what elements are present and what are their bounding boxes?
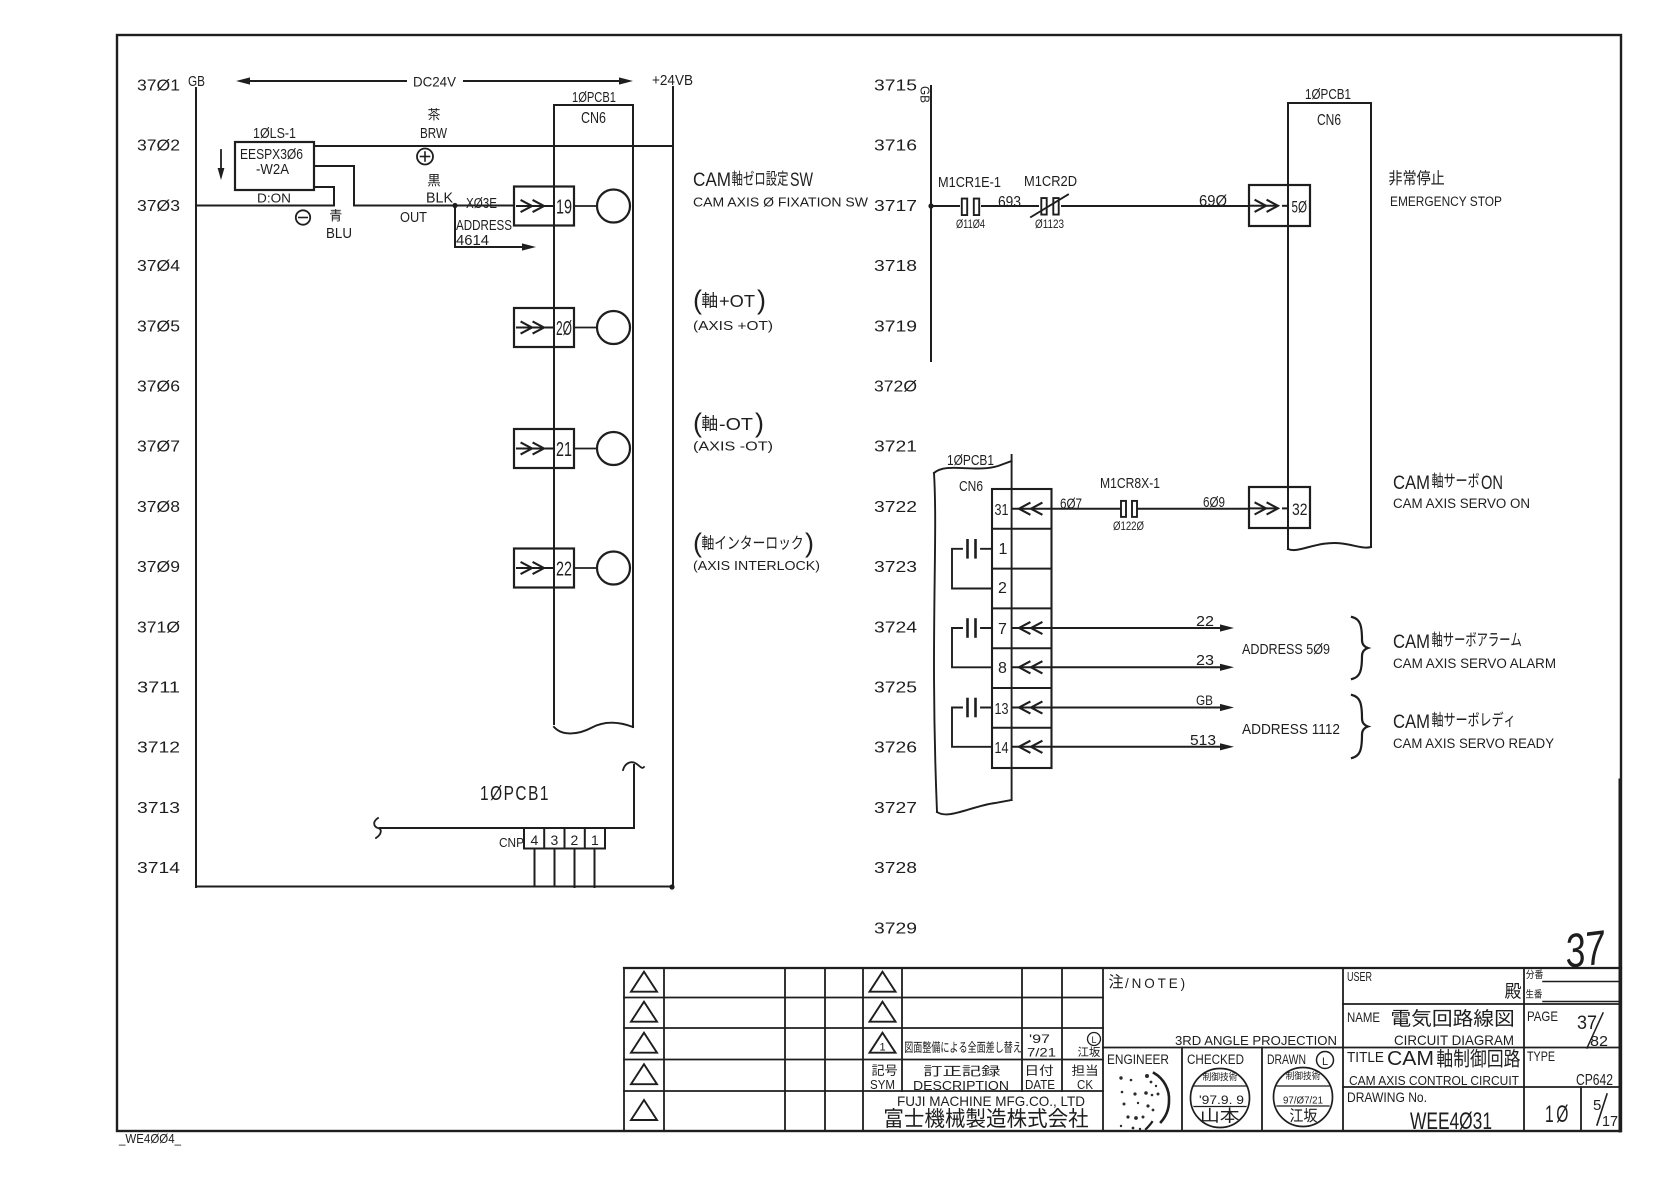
indicator lamp pin 22 [574, 552, 630, 585]
svg-text:DRAWN: DRAWN [1267, 1052, 1306, 1067]
svg-text:3725: 3725 [874, 680, 917, 697]
svg-text:PAGE: PAGE [1527, 1008, 1558, 1024]
svg-text:37: 37 [1577, 1013, 1597, 1034]
name field circuit diagram [1347, 1009, 1514, 1048]
svg-text:1Ø: 1Ø [1545, 1101, 1571, 1128]
svg-text:693: 693 [998, 194, 1021, 211]
svg-text:37Ø9: 37Ø9 [137, 559, 180, 576]
svg-text:22: 22 [1196, 614, 1214, 630]
svg-text:Ø122Ø: Ø122Ø [1113, 521, 1144, 533]
indicator lamp pin 20 [574, 311, 630, 344]
wire 23 to address [1052, 653, 1235, 671]
svg-text:1ØPCB1: 1ØPCB1 [480, 783, 550, 805]
svg-text:6Ø9: 6Ø9 [1203, 494, 1225, 511]
svg-text:1ØPCB1: 1ØPCB1 [1305, 86, 1351, 103]
sym description date ck header [870, 1064, 1097, 1093]
input pin 19 [514, 187, 574, 226]
svg-text:3714: 3714 [137, 860, 180, 877]
engineer stamp [1119, 1073, 1169, 1130]
wire DC24V bus [236, 74, 633, 90]
svg-text:3715: 3715 [874, 78, 917, 95]
svg-text:37Ø5: 37Ø5 [137, 318, 180, 335]
input pin 20 [514, 308, 574, 347]
internal contact pins 7-8 [952, 620, 992, 668]
svg-text:): ) [755, 408, 764, 438]
svg-text:37Ø8: 37Ø8 [137, 499, 180, 516]
connector CNP pins 4-1 [499, 828, 605, 850]
svg-text:/NOTE): /NOTE) [1125, 975, 1188, 991]
svg-text:3711: 3711 [137, 680, 180, 697]
title field cam axis control circuit [1347, 1048, 1520, 1088]
pin 7 [998, 621, 1052, 638]
svg-text:'97: '97 [1029, 1032, 1050, 1046]
svg-text:1: 1 [591, 832, 599, 848]
svg-text:(: ( [693, 528, 702, 558]
wire 513 to address [1052, 733, 1235, 750]
svg-text:CNP: CNP [499, 835, 524, 850]
svg-text:CN6: CN6 [581, 110, 606, 127]
svg-text:14: 14 [995, 740, 1009, 757]
svg-text:CAM AXIS SERVO ON: CAM AXIS SERVO ON [1393, 496, 1530, 511]
wire GB bus right [928, 86, 933, 361]
svg-text:19: 19 [556, 197, 572, 219]
svg-text:): ) [805, 528, 814, 558]
svg-text:DRAWING No.: DRAWING No. [1347, 1089, 1427, 1105]
label AXIS +OT [693, 285, 773, 333]
label CAM AXIS SERVO ALARM [1393, 631, 1556, 671]
svg-text:ENGINEER: ENGINEER [1107, 1052, 1169, 1067]
wire CNP pin 3 [554, 849, 556, 887]
rung numbers 3701-3714 left [137, 78, 180, 878]
svg-text:69Ø: 69Ø [1199, 193, 1227, 210]
type field CP642 [1527, 1048, 1613, 1089]
svg-text:3719: 3719 [874, 318, 917, 335]
svg-text:_WE4ØØ4_: _WE4ØØ4_ [118, 1132, 182, 1146]
svg-text:Ø11Ø4: Ø11Ø4 [956, 219, 985, 231]
svg-text:SW: SW [790, 169, 813, 191]
svg-text:1ØPCB1: 1ØPCB1 [572, 89, 616, 106]
input pin 22 [514, 549, 574, 588]
label CAM axis zero fixation SW [693, 169, 869, 210]
checked stamp [1191, 1069, 1250, 1128]
svg-text:37Ø1: 37Ø1 [137, 78, 180, 95]
svg-text:3724: 3724 [874, 619, 917, 636]
svg-text:3722: 3722 [874, 499, 917, 516]
svg-text:L: L [1092, 1035, 1097, 1045]
svg-text:2: 2 [998, 580, 1007, 597]
svg-text:3: 3 [551, 832, 559, 848]
contact M1CR1E-1 [938, 175, 1001, 231]
svg-text:2Ø: 2Ø [556, 318, 572, 340]
svg-text:SYM: SYM [870, 1078, 895, 1092]
svg-text:ADDRESS 5Ø9: ADDRESS 5Ø9 [1242, 642, 1330, 658]
fuji machine mfg name [885, 1093, 1088, 1128]
wire 607 [1052, 496, 1121, 513]
page field 37/82 [1527, 1008, 1608, 1050]
svg-text:3718: 3718 [874, 258, 917, 275]
svg-text:(AXIS -OT): (AXIS -OT) [693, 439, 773, 454]
wire 609 [1138, 494, 1249, 511]
connector 10PCB1 CN6 lower [934, 453, 1052, 814]
indicator lamp pin 21 [574, 432, 630, 465]
svg-text:-W2A: -W2A [256, 161, 289, 178]
revision triangles right column [870, 972, 896, 1054]
svg-text:ADDRESS 1112: ADDRESS 1112 [1242, 722, 1340, 738]
svg-text:BRW: BRW [420, 126, 447, 142]
svg-text:CAM AXIS SERVO READY: CAM AXIS SERVO READY [1393, 736, 1554, 751]
svg-text:D:ON: D:ON [257, 191, 291, 206]
svg-text:2: 2 [571, 832, 579, 848]
internal contact pins 1-2 [952, 540, 992, 588]
svg-text:22: 22 [556, 559, 572, 581]
svg-text:DATE: DATE [1025, 1078, 1055, 1092]
svg-text:37Ø7: 37Ø7 [137, 439, 180, 456]
svg-text:1: 1 [999, 541, 1008, 558]
svg-text:XØ3E: XØ3E [466, 195, 497, 212]
svg-text:4: 4 [531, 832, 539, 848]
svg-text:ADDRESS: ADDRESS [456, 218, 512, 234]
svg-text:-OT: -OT [719, 414, 753, 434]
svg-text:3729: 3729 [874, 920, 917, 937]
label CAM AXIS SERVO READY [1393, 711, 1554, 751]
label BLK black wire [426, 174, 453, 207]
svg-text:3726: 3726 [874, 740, 917, 757]
svg-text:1ØPCB1: 1ØPCB1 [947, 453, 994, 469]
title block grid [624, 968, 1621, 1131]
svg-text:5: 5 [1593, 1097, 1601, 1114]
svg-text:CP642: CP642 [1576, 1072, 1613, 1089]
drawing number field WEE4031 [1347, 1089, 1492, 1135]
brace servo alarm [1352, 617, 1368, 679]
svg-text:CAM: CAM [1393, 711, 1430, 733]
svg-text:CK: CK [1077, 1078, 1094, 1092]
wire 0V return bottom [196, 884, 675, 889]
svg-text:FUJI MACHINE MFG.CO., LTD: FUJI MACHINE MFG.CO., LTD [897, 1093, 1085, 1109]
svg-text:371Ø: 371Ø [137, 619, 180, 636]
svg-text:3RD ANGLE PROJECTION: 3RD ANGLE PROJECTION [1175, 1033, 1337, 1048]
svg-text:97/Ø7/21: 97/Ø7/21 [1283, 1095, 1323, 1107]
svg-text:4614: 4614 [456, 233, 489, 249]
svg-text:CAM AXIS CONTROL CIRCUIT: CAM AXIS CONTROL CIRCUIT [1349, 1073, 1519, 1088]
wire CNP pin 4 [534, 849, 536, 887]
input pin 32 [1249, 487, 1310, 528]
svg-text:8: 8 [998, 660, 1007, 677]
limit switch 10LS-1 [218, 125, 314, 206]
wire OUT from switch [314, 166, 514, 206]
svg-text:3728: 3728 [874, 860, 917, 877]
svg-text:372Ø: 372Ø [874, 379, 917, 396]
svg-text:3721: 3721 [874, 439, 917, 456]
svg-text:3727: 3727 [874, 800, 917, 817]
pin 14 [995, 740, 1052, 757]
label AXIS -OT [693, 408, 773, 454]
svg-text:(AXIS INTERLOCK): (AXIS INTERLOCK) [693, 558, 820, 573]
svg-text:M1CR2D: M1CR2D [1024, 174, 1077, 190]
svg-text:5Ø: 5Ø [1292, 198, 1308, 217]
svg-text:Ø1123: Ø1123 [1035, 219, 1064, 231]
svg-text:3716: 3716 [874, 138, 917, 155]
svg-text:3717: 3717 [874, 198, 917, 215]
svg-text:CN6: CN6 [959, 478, 983, 495]
svg-text:TYPE: TYPE [1527, 1048, 1555, 1064]
contact M1CR8X-1 [1100, 476, 1160, 533]
svg-text:BLU: BLU [326, 226, 352, 242]
label EMERGENCY STOP [1389, 170, 1502, 209]
pin 13 [995, 701, 1052, 718]
svg-text:'97.9. 9: '97.9. 9 [1199, 1095, 1244, 1107]
svg-text:6Ø7: 6Ø7 [1060, 496, 1082, 513]
svg-text:37Ø4: 37Ø4 [137, 258, 180, 275]
wire rung 3703 from GB [196, 187, 334, 206]
svg-text:37Ø6: 37Ø6 [137, 379, 180, 396]
svg-text:M1CR1E-1: M1CR1E-1 [938, 175, 1001, 191]
svg-text:CIRCUIT DIAGRAM: CIRCUIT DIAGRAM [1394, 1032, 1514, 1048]
wire 22 to address [1052, 614, 1235, 632]
svg-text:NAME: NAME [1347, 1009, 1380, 1025]
svg-text:BLK: BLK [426, 191, 453, 207]
svg-text:ON: ON [1481, 472, 1503, 494]
label BLU blue wire [326, 209, 352, 242]
wire GB to address [1052, 693, 1235, 711]
svg-text:CAM: CAM [1393, 631, 1430, 653]
engineer checked drawn headers [1107, 1052, 1334, 1069]
svg-text:M1CR8X-1: M1CR8X-1 [1100, 476, 1160, 492]
svg-text:GB: GB [1196, 693, 1213, 708]
svg-text:13: 13 [995, 701, 1009, 718]
address pointer 4614 [455, 206, 536, 251]
user field [1347, 969, 1543, 999]
svg-text:3723: 3723 [874, 559, 917, 576]
polarity terminal minus [296, 210, 310, 224]
wire GB bus left [195, 88, 197, 887]
svg-text:(AXIS +OT): (AXIS +OT) [693, 318, 773, 333]
svg-text:37Ø3: 37Ø3 [137, 198, 180, 215]
svg-text:TITLE: TITLE [1347, 1049, 1384, 1066]
revision 1 description [905, 1032, 1101, 1060]
svg-text:USER: USER [1347, 969, 1372, 984]
svg-text:37Ø2: 37Ø2 [137, 138, 180, 155]
svg-text:WEE4Ø31: WEE4Ø31 [1410, 1108, 1492, 1135]
pin 8 [998, 660, 1052, 677]
svg-text:(: ( [693, 285, 702, 315]
svg-text:513: 513 [1190, 733, 1216, 749]
svg-text:OUT: OUT [400, 210, 427, 226]
sheet number fields [1545, 1094, 1618, 1130]
note section [1109, 974, 1188, 991]
contact M1CR2D normally closed [1024, 174, 1077, 231]
drawn stamp [1274, 1068, 1333, 1127]
polarity terminal plus [417, 149, 433, 165]
svg-text:CAM: CAM [1393, 472, 1430, 494]
svg-text:7/21: 7/21 [1027, 1046, 1056, 1060]
svg-text:1: 1 [880, 1042, 886, 1054]
input pin 50 [1249, 185, 1310, 226]
wire +24VB bus [672, 87, 674, 887]
svg-text:32: 32 [1292, 500, 1308, 519]
wire CNP pin 1 [594, 849, 596, 888]
svg-text:(: ( [693, 408, 702, 438]
svg-text:DC24V: DC24V [413, 74, 457, 90]
svg-text:): ) [757, 285, 766, 315]
label BRW brown wire [420, 108, 447, 142]
connector 10PCB1 CN6 top-left [554, 89, 633, 733]
connector 10PCB1 CN6 top-right [1288, 86, 1371, 550]
brace servo ready [1352, 695, 1368, 758]
svg-text:+OT: +OT [719, 291, 755, 311]
svg-text:CAM AXIS Ø FIXATION SW: CAM AXIS Ø FIXATION SW [693, 195, 869, 210]
svg-text:3712: 3712 [137, 740, 180, 757]
svg-text:7: 7 [998, 621, 1007, 638]
svg-text:CHECKED: CHECKED [1187, 1052, 1244, 1067]
internal contact pins 13-14 [952, 699, 992, 747]
svg-text:EMERGENCY STOP: EMERGENCY STOP [1390, 194, 1502, 209]
svg-text:23: 23 [1196, 653, 1214, 669]
indicator lamp pin 19 [574, 190, 630, 223]
svg-text:17: 17 [1602, 1113, 1618, 1130]
label AXIS INTERLOCK [693, 528, 820, 573]
svg-text:CAM: CAM [1387, 1048, 1434, 1070]
input pin 21 [514, 429, 574, 468]
svg-text:1ØLS-1: 1ØLS-1 [253, 125, 296, 142]
wire rung 3702 brown [314, 145, 673, 147]
svg-text:31: 31 [995, 502, 1009, 519]
svg-text:CAM AXIS SERVO ALARM: CAM AXIS SERVO ALARM [1393, 656, 1556, 671]
wire 10PCB1 to CNP [374, 762, 644, 838]
svg-text:DESCRIPTION: DESCRIPTION [913, 1079, 1009, 1093]
label CAM AXIS SERVO ON [1393, 472, 1530, 511]
revision triangles left column [631, 972, 657, 1120]
rung numbers 3715-3729 right [874, 78, 917, 938]
wire rung 3717 segments [931, 205, 1249, 207]
svg-text:21: 21 [556, 439, 572, 461]
svg-text:37: 37 [1562, 921, 1610, 979]
svg-text:82: 82 [1590, 1033, 1608, 1050]
svg-text:CN6: CN6 [1317, 112, 1341, 129]
svg-text:CAM: CAM [693, 169, 731, 191]
junction node X03E [452, 203, 457, 208]
pin 31 [995, 502, 1052, 519]
svg-text:L: L [1322, 1056, 1328, 1068]
wire CNP pin 2 [574, 849, 576, 888]
svg-text:3713: 3713 [137, 800, 180, 817]
